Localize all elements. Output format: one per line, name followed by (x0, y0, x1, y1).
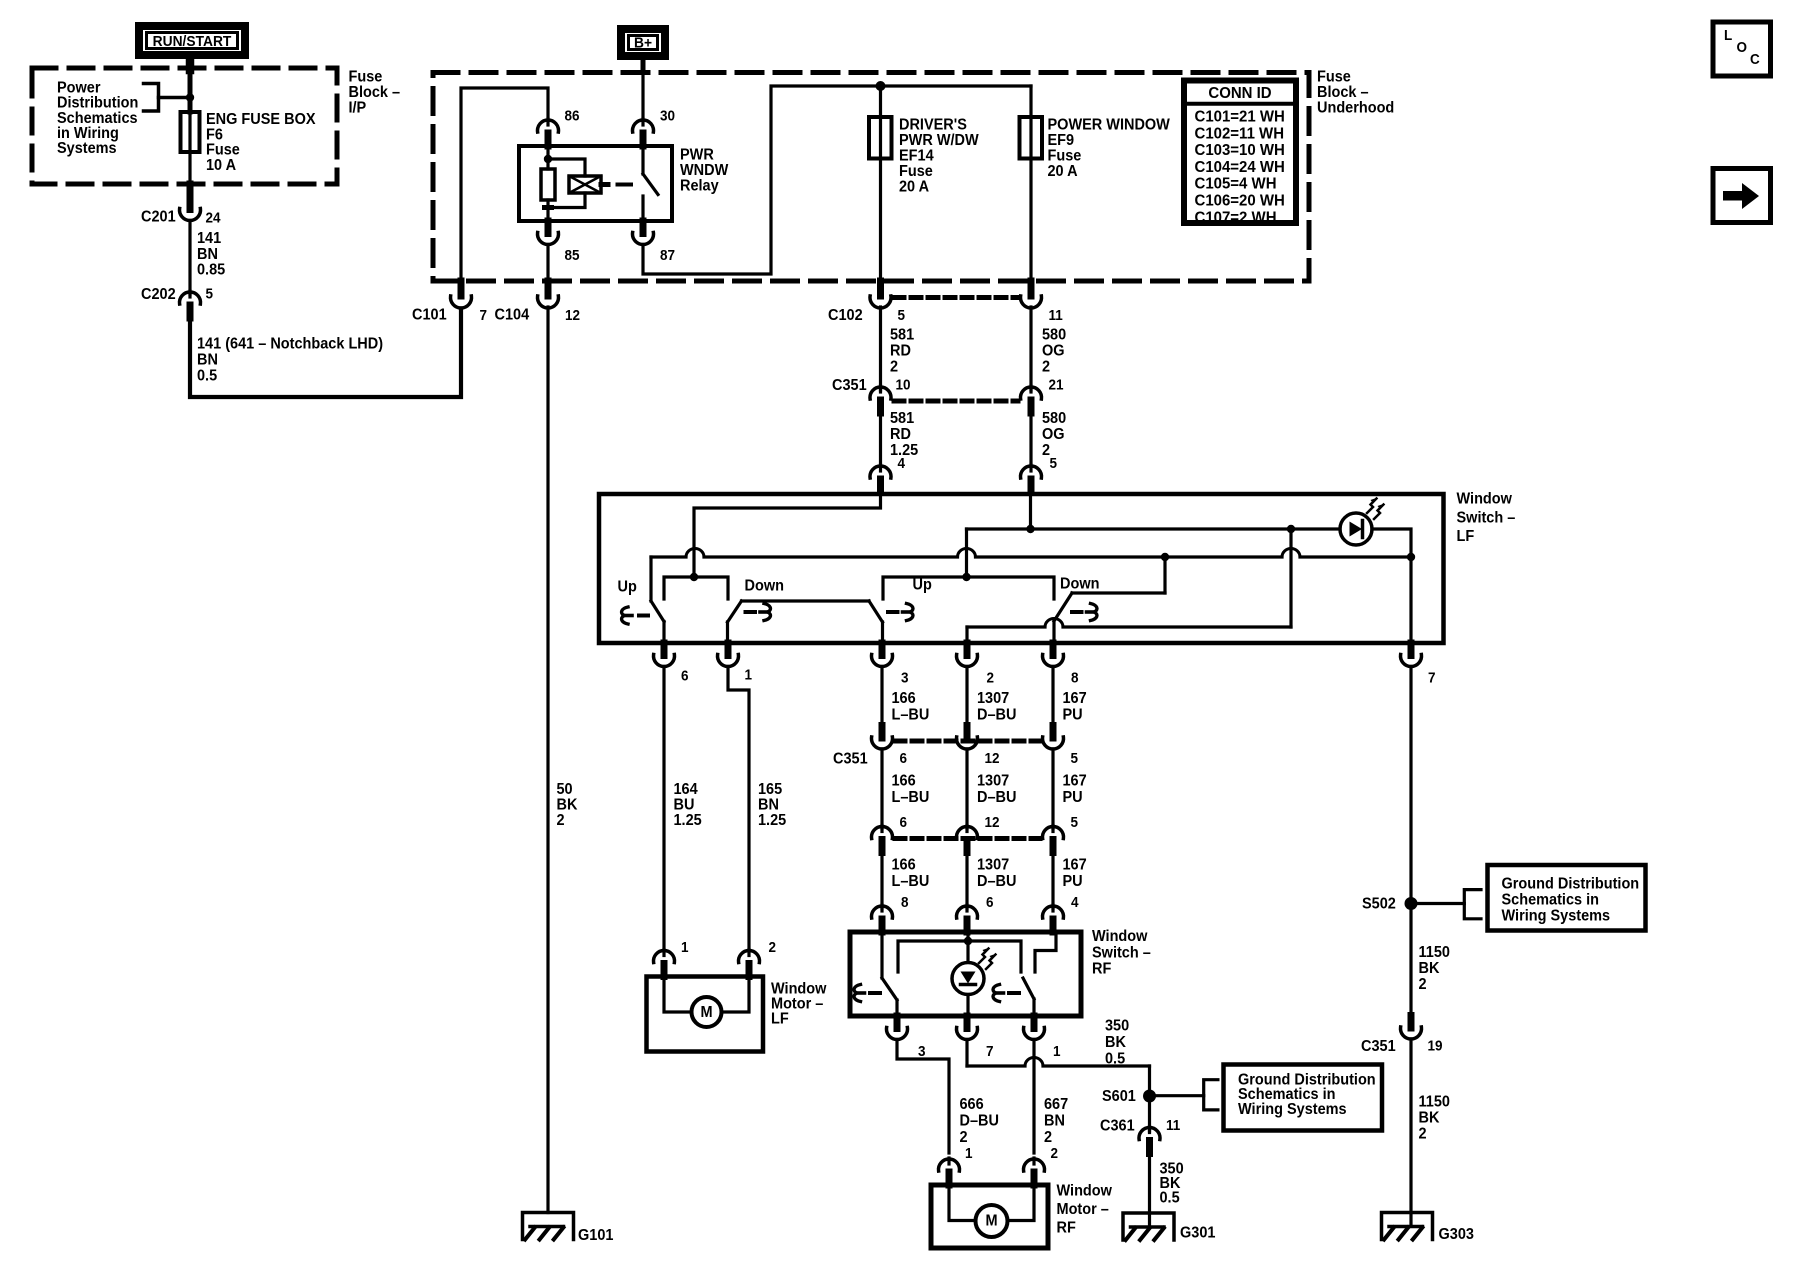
connector C351 pin 5 (upper) (1050, 726, 1057, 739)
switch RF window up (in LF switch) (869, 601, 883, 622)
wire 350 BK 0.5 (RF switch to S601) (965, 1040, 968, 1067)
wire 1150 BK 2 (pin 7 to S502) (1409, 667, 1412, 1016)
indicator LED window switch LF illumination (1340, 513, 1372, 545)
junction on RUN/START feed (186, 93, 194, 101)
junction bus A pin5 (1026, 525, 1034, 533)
node RUN/START (ignition feed emblem) (139, 26, 245, 55)
svg-text:3: 3 (901, 670, 909, 687)
connector relay pin 86 (546, 119, 549, 125)
connector window switch RF pin 4 (1051, 905, 1054, 911)
wire 1307 D-BU (lower) (965, 853, 968, 909)
fuse F6 (ENG FUSE BOX 10 A) (188, 112, 191, 152)
wire 667 BN 2 (1032, 1040, 1035, 1154)
svg-text:C361: C361 (1100, 1117, 1135, 1135)
relay coil (crossed box) (569, 176, 601, 193)
connector C102 pin 11 (1028, 281, 1035, 296)
fuse block I/P dashed boundary (32, 68, 337, 184)
table CONN ID (1184, 81, 1296, 224)
connector pin 5 (lower row) (1051, 826, 1054, 832)
svg-text:Up: Up (913, 576, 932, 594)
connector window switch RF pin 8 (880, 905, 883, 911)
dotted mating line (lower row) (895, 836, 1040, 841)
switch RF window down (in LF switch) (1163, 557, 1166, 593)
junction LF staple feed (690, 573, 698, 581)
wire 581 RD 1.25 (879, 413, 882, 466)
svg-text:C104: C104 (495, 306, 530, 324)
svg-text:C351: C351 (1361, 1038, 1396, 1056)
switch LF window down (728, 601, 742, 622)
connector C351 pin 21 (1029, 386, 1032, 392)
svg-text:Up: Up (618, 578, 637, 596)
wire RUN/START feed into fuse F6 (186, 59, 195, 70)
connector LF switch pin 7 (1408, 643, 1415, 656)
splice S601 (1143, 1090, 1156, 1103)
junction bus B RF down feed (1161, 553, 1169, 561)
reference box Ground Distribution (S601) (1224, 1065, 1383, 1131)
svg-text:G301: G301 (1180, 1224, 1216, 1242)
svg-text:G101: G101 (578, 1227, 614, 1245)
wire 666 D-BU 2 (897, 1040, 949, 1154)
connector LF switch pin 8 (1050, 643, 1057, 656)
svg-text:6: 6 (900, 750, 908, 767)
connector C351 pin 12 (upper) (964, 726, 971, 739)
svg-text:RUN/START: RUN/START (153, 34, 232, 51)
reference bracket to power distribution (144, 84, 159, 112)
junction bus B pin 7 (1407, 553, 1415, 561)
motor Window Motor - LF (647, 977, 764, 1052)
wire relay 87 to fuses feed (643, 86, 1031, 274)
svg-text:5: 5 (1071, 814, 1079, 831)
indicator LED window switch RF illumination (966, 932, 969, 962)
svg-text:C351: C351 (833, 750, 868, 768)
junction RF lamp feed (964, 937, 972, 945)
connector C351 pin 6 (upper) (879, 726, 886, 739)
relay linkage dash (618, 183, 632, 187)
wire pin 7 drop (1409, 557, 1412, 643)
svg-text:7: 7 (986, 1043, 994, 1060)
svg-text:C101=21 WHC102=11 WHC103=10 WH: C101=21 WHC102=11 WHC103=10 WHC104=24 WH… (1195, 108, 1285, 226)
connector C104 pin 12 (545, 281, 552, 296)
wire 166 L-BU (upper) (880, 667, 883, 726)
ground G101 (523, 1213, 574, 1240)
wire LF contact staple (664, 577, 728, 599)
svg-text:5: 5 (206, 286, 214, 303)
wire bus A (967, 527, 1341, 530)
svg-text:6: 6 (681, 668, 689, 685)
svg-text:11: 11 (1049, 307, 1063, 324)
symbol arrow legend box (1713, 169, 1771, 223)
svg-text:8: 8 (901, 894, 909, 911)
svg-text:30: 30 (660, 108, 675, 125)
relay K1 PWR WNDW Relay (519, 146, 672, 221)
svg-text:C102: C102 (828, 307, 863, 325)
reference bracket S601 to ground distribution (1156, 1094, 1204, 1097)
symbol LOC legend box (1713, 22, 1771, 76)
connector window motor LF pin 1 (662, 950, 665, 956)
svg-text:6: 6 (900, 814, 908, 831)
svg-text:85: 85 (565, 247, 580, 264)
wire 1307 D-BU (upper) (965, 667, 968, 726)
svg-text:M: M (985, 1212, 997, 1230)
svg-text:10: 10 (896, 377, 911, 394)
splice S502 (1405, 897, 1418, 910)
wire 164 BU 1.25 (662, 667, 665, 951)
wire linkage bar LF-down / RF-up (742, 599, 870, 602)
reference box Ground Distribution (S502) (1488, 865, 1646, 931)
ground G301 (1123, 1213, 1174, 1240)
svg-text:6: 6 (986, 894, 994, 911)
wire ground bus B (651, 555, 686, 558)
connector relay pin 30 (641, 119, 644, 125)
relay coil resistor (541, 169, 555, 200)
wire relay coil feed (C101 to relay pin 86) (461, 88, 548, 281)
connector RF switch pin 3 (894, 1016, 901, 1029)
svg-text:C: C (1750, 51, 1760, 68)
connector window switch RF pin 6 (965, 905, 968, 911)
connector window switch LF pin 5 (1029, 465, 1032, 471)
connector window switch LF pin 4 (879, 465, 882, 471)
connector relay pin 85 (545, 221, 552, 234)
svg-text:S502: S502 (1362, 895, 1396, 913)
wire bus A drop to RF contacts (965, 529, 968, 577)
wire relay 85 to C104 (546, 245, 549, 297)
svg-text:CONN ID: CONN ID (1208, 85, 1271, 102)
connector pin 6 (lower row) (880, 826, 883, 832)
wire B+ to relay pin 30 (641, 60, 646, 72)
connector LF switch pin 6 (661, 643, 668, 656)
svg-text:2: 2 (769, 939, 777, 956)
svg-text:L: L (1724, 27, 1733, 44)
connector C351 dotted mating line (upper) (895, 739, 1040, 744)
svg-text:24: 24 (206, 210, 221, 227)
svg-text:1: 1 (681, 939, 689, 956)
wire 580 OG 2 (1029, 307, 1032, 390)
svg-text:Down: Down (745, 577, 784, 595)
connector C361 pin 11 (1148, 1127, 1151, 1133)
svg-text:O: O (1737, 39, 1748, 56)
svg-text:5: 5 (1050, 455, 1058, 472)
component Window Switch - RF (850, 932, 1081, 1016)
ground G303 (1382, 1213, 1433, 1240)
svg-text:5: 5 (898, 307, 906, 324)
svg-text:11: 11 (1166, 1117, 1180, 1134)
svg-text:1: 1 (745, 667, 753, 684)
reference bracket S502 to ground distribution (1418, 902, 1465, 905)
connector C351 pin 10 (879, 386, 882, 392)
connector window motor RF pin 2 (1032, 1158, 1035, 1164)
connector RF switch pin 7 (964, 1016, 971, 1029)
wire 167 PU (upper) (1051, 667, 1054, 726)
svg-text:G303: G303 (1439, 1226, 1474, 1244)
connector C202 pin 5 (188, 291, 191, 297)
fuse EF9 POWER WINDOW 20 A (1029, 86, 1032, 283)
connector C101 pin 7 (458, 281, 465, 296)
wire 1150 BK 2 (C351 to G303) (1409, 1039, 1412, 1226)
svg-text:1: 1 (1053, 1043, 1061, 1060)
svg-text:87: 87 (660, 247, 675, 264)
connector C201 pin 24 (187, 197, 194, 210)
wire RF switch contact bar (898, 941, 1021, 972)
svg-text:21: 21 (1049, 377, 1064, 394)
svg-text:7: 7 (480, 307, 488, 324)
wire RF down contact feed (967, 577, 1055, 599)
svg-text:Down: Down (1060, 575, 1099, 593)
wire 166 L-BU (lower) (880, 853, 883, 909)
connector LF switch pin 3 (879, 643, 886, 656)
wire 1307 D-BU (middle) (965, 749, 968, 828)
connector C351 pin 19 (1408, 1016, 1415, 1029)
svg-text:4: 4 (898, 455, 906, 472)
connector C102 mating dotted line (894, 295, 1018, 300)
svg-text:1: 1 (965, 1145, 973, 1162)
wire power bus A from pin 5 (1029, 492, 1032, 529)
wire 141 BN 0.5 (C202 to C101) (190, 309, 461, 398)
svg-text:12: 12 (985, 814, 1000, 831)
svg-text:5: 5 (1071, 750, 1079, 767)
connector window motor LF pin 2 (747, 950, 750, 956)
connector LF switch pin 2 (964, 643, 971, 656)
svg-text:C101: C101 (412, 306, 447, 324)
switch LF window up (649, 557, 652, 601)
svg-text:12: 12 (565, 307, 580, 324)
connector LF switch pin 1 (725, 643, 732, 656)
connector C102 pin 5 (877, 281, 884, 296)
motor Window Motor - RF (931, 1185, 1048, 1248)
svg-text:19: 19 (1428, 1038, 1443, 1055)
wire pin 2 feed-through (965, 627, 968, 643)
node B+ (battery feed emblem) (621, 29, 665, 56)
wire 350 BK 0.5 (C361 to G301) (1148, 1154, 1151, 1227)
svg-text:C201: C201 (141, 208, 176, 226)
svg-text:2: 2 (987, 670, 995, 687)
junction bus A to pin 2 branch (1287, 525, 1295, 533)
svg-text:2: 2 (1051, 1145, 1059, 1162)
junction at EF14 feed (876, 81, 886, 91)
wire RF up contact feed (883, 577, 967, 599)
switch RF up (in RF switch) (880, 932, 883, 978)
svg-text:C202: C202 (141, 286, 176, 304)
connector C351 mating dotted line (894, 399, 1018, 404)
svg-text:C351: C351 (832, 377, 867, 395)
svg-text:86: 86 (565, 108, 580, 125)
svg-text:S601: S601 (1102, 1088, 1136, 1106)
wire 581 RD 2 (879, 307, 882, 390)
svg-text:12: 12 (985, 750, 1000, 767)
connector RF switch pin 1 (1031, 1016, 1038, 1029)
connector window motor RF pin 1 (947, 1158, 950, 1164)
svg-text:8: 8 (1071, 670, 1079, 687)
wire 141 BN 0.85 (188, 221, 191, 295)
wire 167 PU (lower) (1051, 853, 1054, 909)
wire 580 OG 2 (lower) (1029, 413, 1032, 466)
svg-text:M: M (700, 1004, 712, 1022)
switch RF down (in RF switch) (1035, 932, 1056, 972)
svg-text:4: 4 (1071, 894, 1079, 911)
connector relay pin 87 (640, 221, 647, 234)
wire 165 BN 1.25 (728, 667, 749, 951)
fuse EF14 DRIVER'S PWR W/DW 20 A (879, 86, 882, 283)
wire 166 L-BU (middle) (880, 749, 883, 828)
relay switch contacts 30-87 (641, 146, 644, 174)
wire fuse F6 to C201 (188, 152, 191, 184)
wire LF switch feed from pin 4 (694, 492, 881, 577)
fuse block Underhood dashed boundary (433, 73, 1309, 282)
connector pin 12 (lower row) (965, 826, 968, 832)
wire 50 BK 2 (C104 to G101) (546, 307, 549, 1213)
wire 167 PU (middle) (1051, 749, 1054, 828)
wire bus A LED to pin 7 drop (1372, 529, 1411, 557)
svg-text:B+: B+ (634, 35, 652, 52)
svg-text:7: 7 (1428, 670, 1436, 687)
component Window Switch - LF (599, 494, 1444, 643)
